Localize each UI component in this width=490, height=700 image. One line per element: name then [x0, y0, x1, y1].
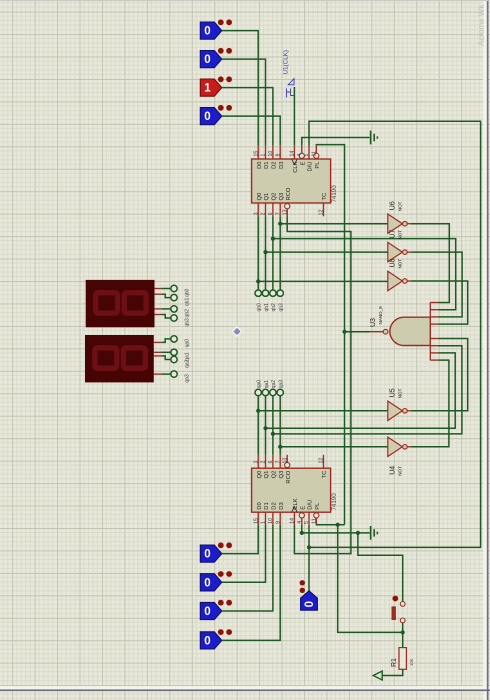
wire U2 Q3 to U4 input [280, 446, 387, 448]
wire display1 seg1 [162, 294, 171, 297]
pin display2 seg0 [154, 341, 162, 343]
svg-text:U5: U5 [390, 388, 397, 397]
wire display2 seg1 [162, 351, 171, 353]
svg-text:D/U: D/U [308, 162, 314, 172]
power terminal (open arrow) [373, 671, 382, 680]
svg-text:15: 15 [253, 151, 259, 157]
svg-text:qb1: qb1 [184, 298, 190, 307]
svg-text:7: 7 [275, 461, 281, 464]
svg-text:14: 14 [290, 518, 296, 524]
svg-text:12: 12 [319, 458, 325, 464]
inverter U8 [388, 258, 411, 290]
svg-text:qb3: qb3 [279, 303, 285, 312]
wire U5 output to NAND input 5 [411, 339, 468, 411]
sheet edge white margin bottom [0, 686, 490, 689]
svg-text:3: 3 [253, 212, 259, 215]
wire logic state input 3 (D2 U1) to U1 [222, 88, 273, 146]
svg-text:qb2: qb2 [271, 303, 277, 312]
svg-text:0: 0 [304, 601, 316, 607]
svg-text:D2: D2 [272, 162, 278, 169]
wire PL column down to button junction [338, 525, 403, 633]
logic state input 8 (D3 U2) [200, 629, 232, 649]
terminal qa2 (U2) [270, 389, 276, 395]
svg-text:1: 1 [261, 154, 267, 157]
terminal qa0 (U2) [255, 389, 261, 395]
junction U2 Q0 [256, 409, 260, 413]
wire U1 Q3 to U6 input [280, 223, 387, 225]
wire U1 qb0 down [257, 216, 259, 290]
wire U8 output to NAND input 4 [411, 281, 468, 324]
svg-text:qa3: qa3 [279, 380, 285, 389]
wire U1 qb1 down [265, 216, 267, 290]
svg-text:7: 7 [275, 212, 281, 215]
svg-text:3: 3 [253, 461, 259, 464]
svg-text:D0: D0 [257, 502, 263, 509]
7-segment display 1 (tens) [86, 280, 155, 327]
terminal display2 qa2 [171, 356, 177, 362]
svg-text:TC: TC [322, 193, 328, 201]
svg-text:Q0: Q0 [257, 471, 263, 479]
terminal display1 qb0 [171, 285, 177, 291]
svg-text:Q1: Q1 [264, 471, 270, 479]
svg-text:6: 6 [268, 212, 274, 215]
sheet border line bottom [0, 689, 490, 691]
svg-text:D2: D2 [272, 502, 278, 509]
wire logic state input 4 (D3 U1) to U1 [222, 116, 280, 146]
terminal display2 qa3 [171, 371, 177, 377]
svg-text:qb2: qb2 [184, 309, 190, 318]
svg-text:D/U: D/U [308, 500, 314, 510]
wire U1 E to ground [302, 138, 370, 146]
svg-text:12: 12 [319, 209, 325, 215]
pin display1 seg2 [155, 308, 163, 310]
wire display1 seg2 [162, 308, 171, 310]
wire logic state input 7 (D2 U2) to U2 [222, 525, 273, 611]
terminal qa3 (U2) [277, 389, 283, 395]
junction U1 Q3 [278, 222, 282, 226]
counter U2 74190 [252, 455, 339, 525]
logic state input 2 (D1 U1) [200, 48, 232, 68]
svg-text:U4: U4 [390, 466, 397, 475]
wire display1 seg0 [162, 288, 171, 290]
svg-text:Q0: Q0 [257, 193, 263, 201]
wire logic state input 8 (D3 U2) to U2 [222, 525, 280, 641]
junction PL net to button column [336, 523, 340, 527]
svg-text:11: 11 [312, 518, 318, 523]
svg-text:10k: 10k [409, 658, 414, 666]
wire U2 qa0 down [257, 396, 259, 455]
logic state input 7 (D2 U2) [200, 600, 232, 620]
wire display1 seg3 [162, 315, 171, 319]
svg-text:Q3: Q3 [279, 193, 285, 201]
junction U1 Q1 [263, 250, 267, 254]
wire logic state input 2 (D1 U1) to U1 [222, 59, 266, 146]
pin display1 seg3 [155, 314, 163, 316]
svg-text:PL: PL [315, 161, 321, 169]
svg-text:0: 0 [204, 577, 210, 589]
terminal display2 qa1 [171, 349, 177, 355]
wire U1 Q1 to U7 input [266, 251, 388, 253]
svg-text:RCO: RCO [286, 470, 292, 483]
inverter U5 [388, 388, 411, 420]
svg-text:74190: 74190 [331, 493, 338, 511]
svg-text:E: E [300, 161, 306, 165]
junction button branch on ground wire [356, 531, 360, 535]
junction U2 Q1 [263, 426, 267, 430]
logic state input 5 (D0 U2) [200, 542, 232, 562]
svg-text:D3: D3 [279, 162, 285, 169]
pin display2 seg2 [154, 355, 162, 357]
pin display2 seg1 [154, 351, 162, 353]
ground symbol top right [371, 131, 378, 145]
svg-text:10: 10 [268, 518, 274, 524]
svg-text:qa1: qa1 [264, 380, 270, 389]
wire U2 Q2 to NAND input 6 [273, 346, 462, 434]
resistor R1 10k [391, 648, 414, 670]
wire U1 qb2 down [272, 216, 274, 290]
terminal display1 qb2 [171, 306, 177, 312]
svg-text:0: 0 [204, 606, 210, 618]
7-segment display 2 (units) [85, 335, 154, 382]
svg-text:0: 0 [204, 26, 210, 38]
wire junction to R1 [402, 632, 404, 647]
svg-text:E: E [300, 506, 306, 510]
junction U3 output on PL net [342, 330, 346, 334]
svg-text:4: 4 [297, 154, 303, 157]
cursor origin marker [232, 327, 241, 336]
wire U2 E to ground [302, 525, 370, 533]
wire clock to U1 CLK [293, 87, 295, 146]
svg-text:Q2: Q2 [272, 471, 278, 479]
junction U2 Q2 [271, 432, 275, 436]
svg-text:1: 1 [261, 521, 267, 524]
svg-text:D1: D1 [264, 502, 270, 509]
wire U4 output to NAND input 8 [411, 360, 449, 447]
wire display2 seg0 [162, 339, 171, 343]
svg-text:Acrome Wk: Acrome Wk [477, 4, 486, 46]
wire display2 seg2 [162, 356, 171, 360]
svg-text:5: 5 [304, 154, 310, 157]
terminal qa1 (U2) [262, 389, 268, 395]
push button [392, 596, 405, 623]
wire R1 to power terminal [383, 669, 403, 675]
svg-text:NOT: NOT [398, 230, 403, 240]
svg-text:0: 0 [204, 54, 210, 66]
wire U1 Q2 to NAND input 2 [273, 239, 456, 310]
junction U2 E on ground wire [300, 531, 304, 535]
svg-text:Q1: Q1 [264, 193, 270, 201]
wire U2 PL to PL net [316, 524, 344, 526]
inverter U6 [388, 201, 411, 233]
terminal qb0 (U1) [255, 290, 261, 296]
svg-text:NAND_8: NAND_8 [378, 306, 383, 325]
svg-text:U8: U8 [390, 258, 397, 267]
svg-text:RCO: RCO [286, 187, 292, 200]
svg-text:2: 2 [261, 212, 267, 215]
svg-text:NOT: NOT [398, 466, 403, 476]
svg-text:6: 6 [268, 461, 274, 464]
wire logic state input 6 (D1 U2) to U2 [222, 525, 266, 583]
svg-text:NOT: NOT [398, 388, 403, 398]
pin display1 seg1 [155, 293, 163, 295]
svg-text:qa0: qa0 [257, 380, 263, 389]
pin display2 seg3 [154, 373, 162, 375]
logic state up/down control (vertical) [300, 580, 318, 610]
svg-text:0: 0 [204, 636, 210, 648]
terminal display1 qb3 [171, 315, 177, 321]
svg-text:0: 0 [204, 549, 210, 561]
svg-text:qa2: qa2 [184, 359, 190, 368]
inverter U7 [388, 230, 411, 262]
logic state input 3 (D2 U1) [200, 76, 232, 96]
svg-text:qa3: qa3 [184, 374, 190, 383]
svg-text:4: 4 [297, 521, 303, 524]
nand gate U3 NAND_8 [370, 302, 439, 360]
terminal qb2 (U1) [270, 290, 276, 296]
wire U1 Q0 to U8 input [258, 280, 387, 282]
svg-text:D3: D3 [279, 502, 285, 509]
junction U1 Q0 [256, 279, 260, 283]
wire U1 D/U across right side to U2 D/U net [309, 121, 481, 547]
svg-text:U1(CLK): U1(CLK) [283, 50, 290, 75]
clock generator U1(CLK) [283, 50, 295, 98]
svg-text:U7: U7 [390, 230, 397, 239]
junction button R1 [401, 630, 405, 634]
wire U2 qa3 down [279, 396, 281, 455]
ground symbol middle right [371, 526, 378, 540]
svg-text:PL: PL [315, 502, 321, 510]
svg-text:11: 11 [312, 151, 318, 156]
svg-text:2: 2 [261, 461, 267, 464]
inverter U4 [388, 437, 411, 476]
wire U2 qa2 down [272, 396, 274, 455]
sheet edge white margin right [483, 0, 486, 700]
pin display1 seg0 [155, 288, 163, 290]
svg-text:qa1: qa1 [184, 352, 190, 361]
svg-text:qb1: qb1 [264, 303, 270, 312]
svg-text:5: 5 [304, 521, 310, 524]
wire U2 qa1 down [265, 396, 267, 455]
wire U1 qb3 down [279, 216, 281, 290]
wire logic state input 5 (D0 U2) to U2 [222, 525, 258, 554]
svg-text:U3: U3 [370, 318, 377, 327]
junction U2 Q3 [278, 445, 282, 449]
wire U3 output to PL net [345, 331, 370, 333]
wire U1 RCO to U2 CLK (cascade) [287, 216, 351, 553]
svg-text:qb0: qb0 [184, 288, 190, 297]
terminal qb1 (U1) [262, 290, 268, 296]
wire U7 output to NAND input 3 [411, 252, 462, 317]
wire display2 seg3 [162, 373, 171, 375]
logic state input 4 (D3 U1) [200, 105, 232, 125]
svg-text:13: 13 [282, 209, 288, 215]
svg-text:9: 9 [275, 521, 281, 524]
svg-text:D1: D1 [264, 162, 270, 169]
wire U2 Q0 to U5 input [258, 410, 387, 412]
svg-text:qb0: qb0 [257, 303, 263, 312]
wire U6 output to NAND input 1 [411, 224, 449, 303]
junction U1 Q2 [271, 237, 275, 241]
svg-text:qb3: qb3 [184, 318, 190, 327]
svg-text:TC: TC [322, 471, 328, 479]
svg-text:Q3: Q3 [279, 471, 285, 479]
svg-text:Q2: Q2 [272, 193, 278, 201]
logic state input 1 (D0 U1) [200, 19, 232, 39]
wire U2 Q1 to NAND input 7 [266, 353, 456, 428]
junction U2 D/U with U1 D/U net [307, 545, 311, 549]
wire logic state input 1 (D0 U1) to U1 [222, 31, 258, 146]
logic state input 6 (D1 U2) [200, 571, 232, 591]
top edge line [0, 0, 490, 1]
svg-text:NOT: NOT [398, 201, 403, 211]
svg-text:qa0: qa0 [184, 339, 190, 348]
svg-text:14: 14 [290, 151, 296, 157]
svg-text:U6: U6 [390, 201, 397, 210]
svg-text:NOT: NOT [398, 259, 403, 269]
counter U1 74190 [252, 146, 339, 217]
svg-text:74190: 74190 [331, 185, 338, 203]
wire ground net to button [358, 533, 403, 602]
svg-text:1: 1 [204, 83, 211, 95]
svg-text:0: 0 [204, 111, 210, 123]
svg-text:10: 10 [268, 151, 274, 157]
terminal display2 qa0 [171, 336, 177, 342]
terminal display1 qb1 [171, 294, 177, 300]
wire button to R1 junction [402, 623, 404, 633]
terminal qb3 (U1) [277, 290, 283, 296]
sheet border line right [487, 0, 489, 700]
svg-text:D0: D0 [257, 162, 263, 169]
wire U2 D/U down to logic state [308, 525, 310, 592]
svg-text:13: 13 [282, 458, 288, 464]
svg-text:R1: R1 [391, 658, 398, 667]
svg-text:qa2: qa2 [271, 380, 277, 389]
wire U1 PL down middle column (PL net) [316, 145, 344, 525]
svg-text:15: 15 [253, 518, 259, 524]
svg-text:9: 9 [275, 154, 281, 157]
